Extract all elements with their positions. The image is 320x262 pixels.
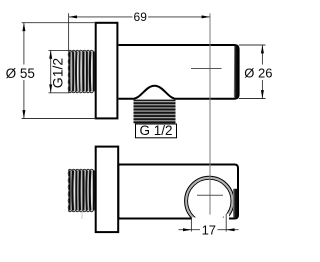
- svg-text:G1/2: G1/2: [49, 58, 65, 89]
- bottom tick: [239, 98, 266, 100]
- small tail line under thread: [81, 212, 83, 220]
- left extension tick: [190, 218, 192, 232]
- wall thread (bottom view): [68, 169, 96, 219]
- svg-text:G 1/2: G 1/2: [139, 123, 172, 138]
- bottom tick: [49, 92, 70, 94]
- dimension Ø55: [6, 23, 96, 119]
- extension line at thread start: [68, 13, 70, 50]
- dim line lower: [23, 80, 25, 119]
- outlet thread (top view, downward): [134, 100, 176, 124]
- center cross tick (top view): [191, 68, 222, 70]
- centerline (holder axis, upper segment): [209, 13, 211, 146]
- left arrow: [69, 15, 77, 18]
- ring opening eraser central: [192, 217, 226, 227]
- left arrow: [183, 228, 191, 231]
- svg-text:69: 69: [134, 10, 148, 24]
- right arrow: [226, 228, 234, 231]
- holder ring inner: [188, 179, 231, 222]
- bracket line: [50, 50, 52, 92]
- dimension 69: [69, 10, 210, 50]
- tube body (top view) with rounded end: [119, 45, 239, 99]
- svg-text:Ø 55: Ø 55: [6, 66, 35, 81]
- bottom arrow: [49, 84, 52, 92]
- top extension line: [22, 22, 96, 24]
- end cap shading (top view): [234, 46, 238, 98]
- bottom extension line: [22, 118, 96, 120]
- svg-text:Ø 26: Ø 26: [244, 66, 272, 81]
- flange (top view): [96, 23, 118, 119]
- holder ring outer: [185, 176, 234, 225]
- dimension G1/2 (wall thread): [49, 50, 70, 92]
- dim line lower: [261, 80, 263, 99]
- top arrow: [261, 45, 264, 53]
- right arrow: [202, 15, 210, 18]
- dim line upper: [23, 23, 25, 65]
- centerline (holder axis, lower segment): [209, 146, 211, 215]
- bottom arrow: [261, 90, 264, 98]
- dimension 17: [179, 214, 239, 238]
- top tick: [239, 44, 266, 46]
- bottom arrow: [22, 110, 25, 118]
- flange (bottom view): [96, 147, 119, 233]
- right extension tick: [225, 214, 227, 232]
- dimension Ø26: [239, 45, 273, 99]
- top arrow: [49, 50, 52, 58]
- top tick: [49, 49, 70, 51]
- G 1/2 label box: [136, 123, 177, 138]
- ring opening eraser right: [224, 214, 229, 228]
- dim line left outer: [179, 229, 201, 231]
- dim line right: [218, 229, 239, 231]
- svg-text:17: 17: [202, 222, 216, 237]
- dim line upper: [261, 45, 263, 65]
- center cross tick (bottom view): [197, 194, 223, 196]
- wall thread (top view): [68, 50, 96, 93]
- dim line right segment: [148, 16, 210, 18]
- dim line left segment: [69, 16, 133, 18]
- top arrow: [22, 23, 25, 31]
- holder body (bottom view): [118, 165, 238, 219]
- right edge shadow (bottom view): [233, 189, 238, 218]
